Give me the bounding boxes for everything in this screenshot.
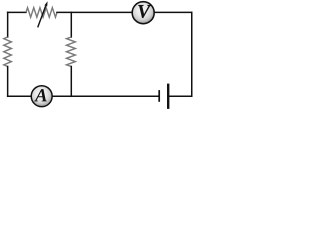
wire: left side lower xyxy=(7,67,9,97)
ammeter A (meter circle with letter A) xyxy=(31,86,52,107)
wire: top-left corner to rheostat xyxy=(8,11,26,13)
battery cell: short plate (negative) xyxy=(158,90,160,102)
variable resistor (rheostat) R3 zigzag xyxy=(26,8,57,18)
wire: left side upper xyxy=(7,12,9,37)
resistor R2 (middle branch) zigzag xyxy=(67,37,76,67)
wire: middle branch lower (junction node with bottom wire) xyxy=(70,67,72,97)
battery cell: long plate (positive) xyxy=(167,84,169,109)
wire: middle branch upper (junction node with top wire) xyxy=(70,12,72,37)
rheostat wiper arrow xyxy=(38,1,48,27)
wire: bottom, left corner through ammeter to battery xyxy=(8,95,159,97)
voltmeter V (meter circle with letter V) xyxy=(132,2,154,24)
wire: battery to bottom-right corner xyxy=(168,95,192,97)
resistor R1 (left branch) zigzag xyxy=(4,37,12,67)
wire: rheostat to top-right corner (through voltmeter node) xyxy=(57,11,192,13)
wire: right side vertical xyxy=(191,12,193,96)
